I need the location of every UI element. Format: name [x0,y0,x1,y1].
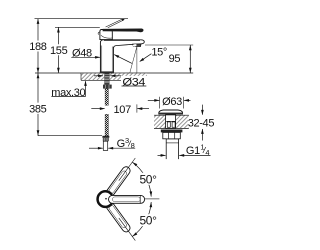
svg-text:32-45: 32-45 [188,118,215,130]
handle back hook [98,32,100,35]
svg-text:188: 188 [29,41,47,53]
spout tip cap [133,40,144,45]
label G1 1/4 [158,154,166,156]
dimension 107 [91,108,104,110]
svg-text:50°: 50° [139,172,157,186]
angle arc upper (50) [132,162,151,197]
385 bottom reference line [38,135,102,137]
drain nut [163,132,181,138]
spout underside [114,44,133,48]
svg-text:155: 155 [50,45,68,57]
mounting nut [103,85,112,89]
counter hatch (faucet) [81,73,147,80]
svg-text:15°: 15° [151,46,167,58]
svg-text:4: 4 [205,148,209,157]
drain pipe [166,139,178,159]
plan body circle [98,191,114,207]
svg-text:385: 385 [29,103,47,115]
faucet body column [100,40,113,72]
drain washer [161,130,183,133]
hose end fitting [102,136,109,138]
plan extension lines [119,158,136,181]
extension line (155, lever top) [55,26,100,28]
faucet base band [100,71,114,73]
middle lever bar [109,195,145,203]
svg-text:8: 8 [131,141,135,150]
lever (side view) [103,29,144,33]
dimension Ø63 [148,99,159,101]
dimension 188 [37,19,39,41]
lifted lever outline [106,19,124,28]
raised lever bar [105,165,132,198]
15deg reference lines [136,47,138,73]
dimension 385 [37,73,39,103]
pivot dot [105,198,107,200]
drain body in hole [166,115,176,128]
dimension 32-45 [201,105,203,115]
extension line top (188, lifted lever tip) [35,18,129,20]
label Ø34 [94,75,103,77]
svg-text:G1: G1 [186,145,200,157]
supply hose (braided) [105,89,108,105]
dimension 155 [57,27,59,44]
lowered lever bar [105,201,132,234]
svg-text:G: G [117,138,125,150]
dimension 95 [145,44,193,46]
svg-text:max.30: max.30 [51,87,85,99]
G3/8 pipe [103,141,107,150]
drain cap dome [159,110,183,113]
label G3/8 [89,147,103,149]
svg-text:95: 95 [169,53,181,65]
aerator [133,44,141,47]
countertop top line [35,72,193,74]
svg-text:107: 107 [114,104,132,116]
angle arc lower (50) [132,202,151,237]
svg-text:Ø34: Ø34 [122,77,145,89]
handle dome [100,30,112,40]
mounting shank [104,73,109,85]
drain counter hatch [154,114,189,116]
label 15deg [140,54,151,62]
svg-text:Ø63: Ø63 [162,96,182,108]
svg-text:50°: 50° [139,214,157,228]
Ø48 right arrow [114,55,132,64]
